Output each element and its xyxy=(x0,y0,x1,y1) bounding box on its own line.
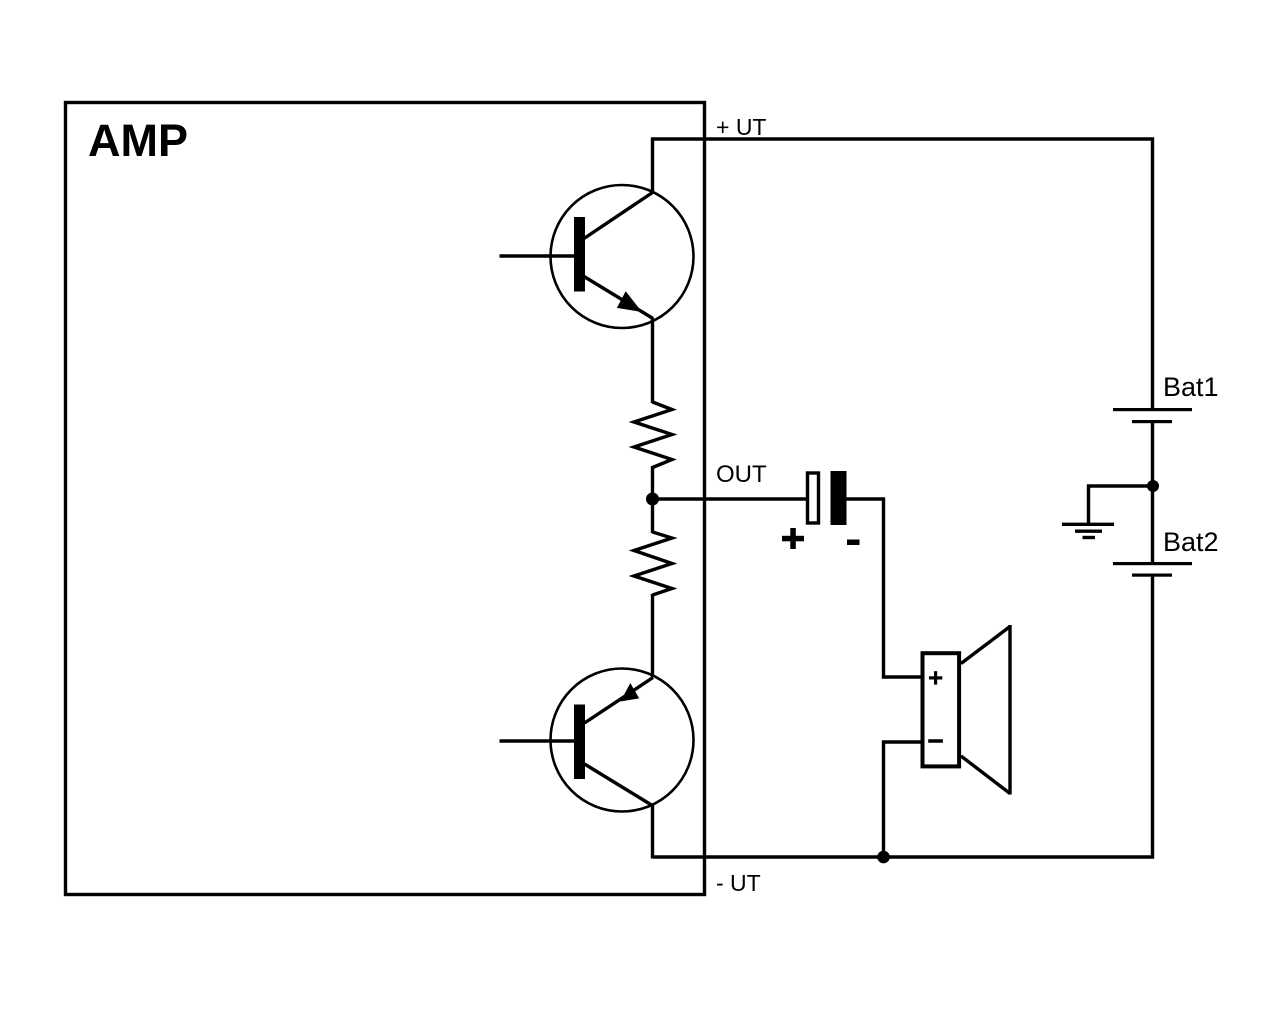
wire between batteries xyxy=(1151,422,1154,563)
wire ground branch xyxy=(1089,486,1154,524)
wire Q2 collector down to -UT rail xyxy=(651,804,654,859)
wire Q1 base stub xyxy=(500,254,575,257)
svg-text:Bat1: Bat1 xyxy=(1163,372,1219,402)
label C1 minus xyxy=(847,540,860,546)
wire R2 down to Q2 xyxy=(651,594,654,677)
wire capacitor to corner xyxy=(847,497,886,500)
wire +UT top rail xyxy=(651,137,1154,140)
svg-text:- UT: - UT xyxy=(716,870,761,896)
resistor R1 xyxy=(634,402,672,468)
node speaker-minus / -UT rail junction xyxy=(877,851,890,864)
ground xyxy=(1062,524,1114,537)
wire down to speaker plus xyxy=(884,498,923,678)
svg-text:OUT: OUT xyxy=(716,461,767,488)
wire right rail upper xyxy=(1151,138,1154,410)
transistor Q1 xyxy=(551,185,694,328)
node OUT junction dot xyxy=(646,493,659,506)
speaker LS1 xyxy=(923,625,1011,795)
wire Q1 emitter down to R1 xyxy=(651,318,654,403)
transistor Q2 xyxy=(551,669,694,812)
svg-text:Bat2: Bat2 xyxy=(1163,527,1219,557)
label C1 plus xyxy=(782,528,804,549)
resistor R2 xyxy=(634,532,672,595)
svg-text:+ UT: + UT xyxy=(716,114,766,140)
wire OUT to capacitor xyxy=(653,497,807,500)
wire -UT bottom rail xyxy=(653,855,1155,858)
battery Bat1 xyxy=(1113,408,1192,423)
amp box xyxy=(66,103,705,895)
capacitor C1 xyxy=(808,471,847,525)
wire Q2 base stub xyxy=(500,739,575,742)
wire speaker minus xyxy=(884,742,923,857)
wire right rail lower xyxy=(1151,576,1154,859)
battery Bat2 xyxy=(1113,562,1192,577)
wire Q1 collector to +UT rail xyxy=(651,138,654,194)
node ground tap junction xyxy=(1147,480,1159,492)
wire R1 to node OUT to R2 xyxy=(651,466,654,533)
svg-text:AMP: AMP xyxy=(88,115,188,166)
